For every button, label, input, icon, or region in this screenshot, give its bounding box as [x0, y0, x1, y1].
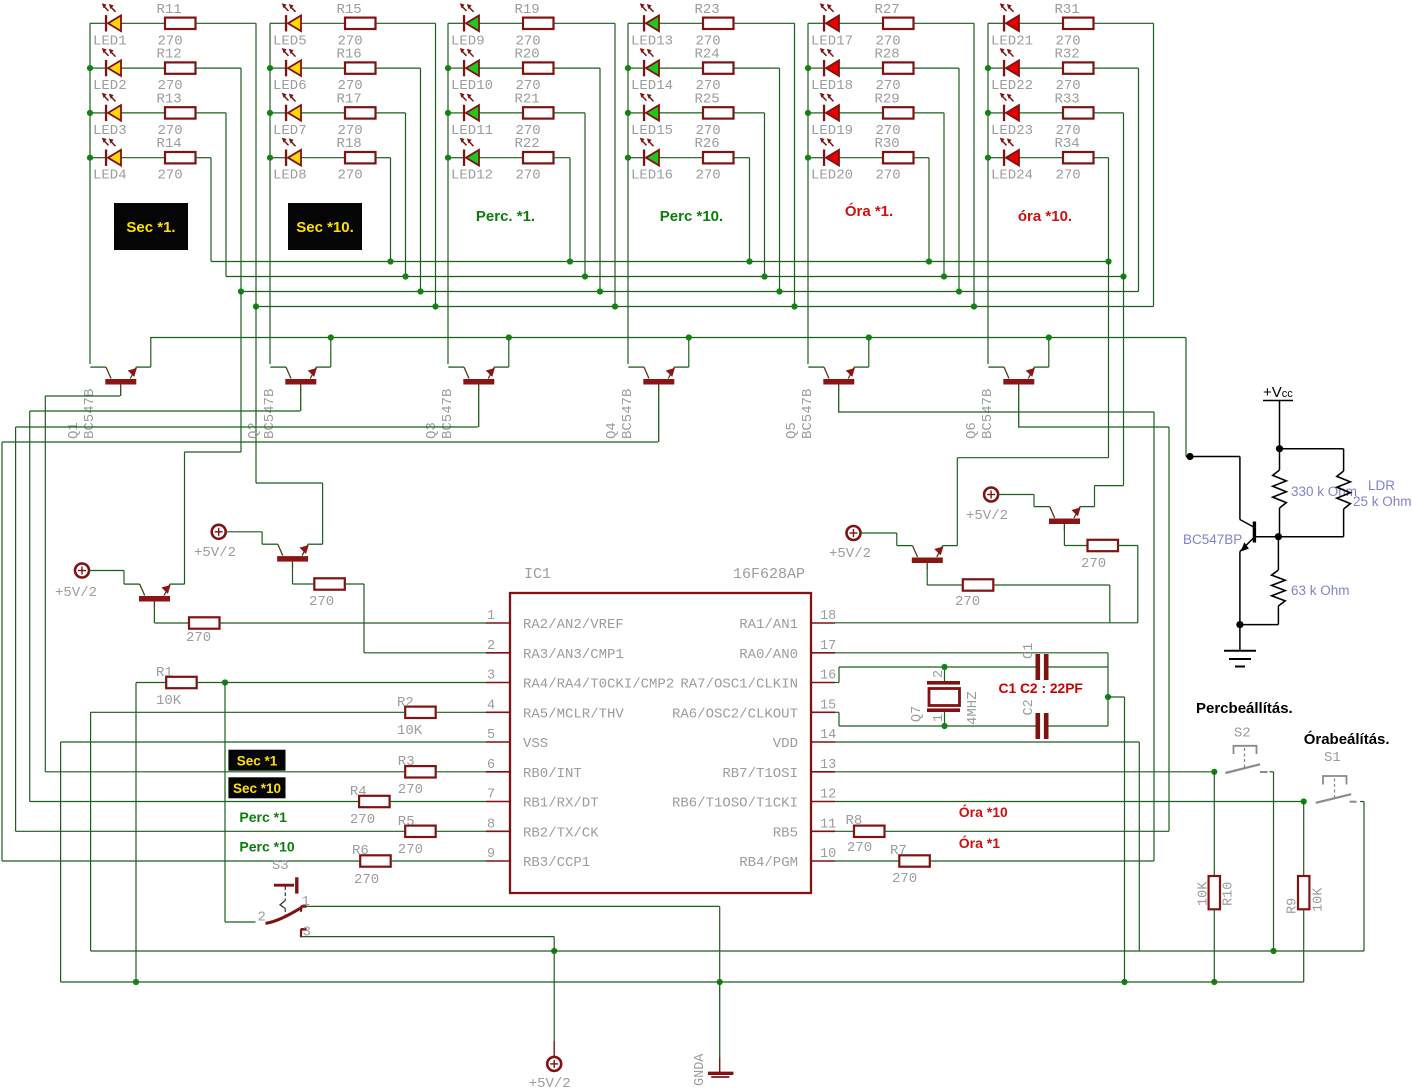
svg-text:1: 1 [302, 894, 310, 910]
switch S1 [1316, 776, 1357, 803]
LED LED11 [460, 93, 479, 121]
wire S2 contact to +5 rail [1270, 771, 1274, 773]
wire pin6 line [45, 771, 405, 773]
wire S3 pole [225, 921, 256, 923]
junction [87, 65, 93, 71]
junction [417, 288, 423, 294]
junction [746, 258, 752, 264]
svg-text:12: 12 [820, 788, 836, 803]
svg-text:LED10: LED10 [451, 78, 493, 94]
transistor Q1 BC547B [90, 367, 151, 390]
wire driver B collector [292, 566, 294, 584]
wire Q4 base drop [658, 389, 660, 442]
svg-text:óra *10.: óra *10. [1018, 208, 1072, 225]
wire driver A supply [89, 570, 124, 572]
ground [1239, 625, 1241, 651]
wire driver A output to pin1 [220, 622, 487, 624]
wire [554, 112, 586, 114]
svg-text:BC547B: BC547B [262, 389, 278, 439]
junction [612, 303, 618, 309]
svg-text:LED13: LED13 [631, 33, 673, 49]
wire [914, 67, 960, 69]
transistor driver E [897, 546, 958, 569]
resistor 63 k Ohm [1277, 537, 1279, 570]
resistor R1 10K [166, 677, 197, 688]
wire [628, 22, 643, 24]
svg-text:270: 270 [186, 630, 211, 646]
svg-text:C2: C2 [1022, 699, 1037, 715]
resistor R6 270 [360, 855, 391, 866]
pin 14 stub [811, 741, 835, 743]
svg-text:R1: R1 [156, 665, 173, 681]
junction [1120, 273, 1126, 279]
wire LED group 1 common [89, 23, 91, 364]
svg-text:LED9: LED9 [451, 33, 485, 49]
wire R3 to pin6 [436, 771, 486, 773]
resistor driver A 270 [189, 617, 220, 628]
LED LED19 [820, 93, 839, 121]
wire C1 right [1049, 666, 1109, 668]
LED LED22 [1000, 48, 1019, 76]
junction [1211, 979, 1217, 985]
svg-text:+5V/2: +5V/2 [55, 585, 97, 601]
resistor R11 270 [165, 18, 196, 29]
junction [253, 303, 259, 309]
svg-text:RB6/T1OSO/T1CKI: RB6/T1OSO/T1CKI [672, 796, 798, 812]
svg-text:R3: R3 [398, 754, 415, 770]
wire driver F supply [998, 494, 1034, 496]
svg-text:Percbeállítás.: Percbeállítás. [1196, 700, 1293, 717]
svg-text:270: 270 [350, 812, 375, 828]
wire [270, 157, 285, 159]
junction [402, 273, 408, 279]
wire Q2 base drop [300, 389, 302, 411]
svg-text:Q3: Q3 [424, 422, 440, 439]
+5V/2 supply [847, 526, 861, 540]
wire [448, 157, 463, 159]
wire Q6 base drop [1018, 389, 1020, 427]
wire [554, 157, 571, 159]
resistor R12 270 [165, 62, 196, 73]
junction [686, 334, 692, 340]
junction [1270, 948, 1276, 954]
wire S3 contact3 to +5V/2 [301, 936, 554, 938]
crystal Q7 4MHZ [927, 681, 960, 712]
wire [554, 67, 601, 69]
resistor R23 270 [703, 18, 734, 29]
svg-text:10K: 10K [1312, 887, 1327, 912]
wire [914, 157, 930, 159]
svg-text:+5V/2: +5V/2 [194, 545, 236, 561]
svg-text:LED11: LED11 [451, 123, 493, 139]
svg-text:Q6: Q6 [964, 422, 980, 439]
svg-text:RB3/CCP1: RB3/CCP1 [523, 855, 590, 871]
wire R6 to pin9 [391, 860, 486, 862]
svg-text:10K: 10K [397, 723, 423, 739]
wire [270, 22, 285, 24]
wire S1 contact to +5 rail [1360, 801, 1364, 803]
svg-text:25 k Ohm: 25 k Ohm [1353, 494, 1412, 509]
resistor R2 10K [405, 707, 436, 718]
svg-text:R23: R23 [695, 2, 720, 18]
junction [1105, 258, 1111, 264]
wire emitter rail to BC547BP collector [1185, 338, 1187, 457]
svg-text:3: 3 [303, 925, 311, 941]
LED LED13 [640, 3, 659, 31]
wire [196, 157, 212, 159]
pin 9 stub [486, 860, 510, 862]
svg-text:Perc. *1.: Perc. *1. [476, 208, 535, 225]
transistor driver B [262, 544, 323, 567]
svg-text:10: 10 [820, 847, 836, 862]
junction [267, 155, 273, 161]
wire [1094, 112, 1124, 114]
LDR 25 k Ohm [1337, 471, 1351, 509]
transistor Q5 BC547B [808, 367, 869, 390]
svg-text:270: 270 [354, 872, 379, 888]
svg-text:270: 270 [398, 782, 423, 798]
svg-text:13: 13 [820, 758, 836, 773]
wire R7 to Q5 base net [930, 860, 1154, 862]
wire bus-B to driver-F emitter [1123, 277, 1125, 486]
svg-text:RA5/MCLR/THV: RA5/MCLR/THV [523, 706, 624, 722]
wire [554, 22, 616, 24]
wire pin14 VDD to +5 rail [835, 741, 1139, 743]
pin 13 stub [811, 771, 835, 773]
pin 8 stub [486, 830, 510, 832]
junction [625, 155, 631, 161]
wire bus-A to driver-E emitter [1108, 262, 1110, 458]
resistor R13 270 [165, 107, 196, 118]
pin 7 stub [486, 801, 510, 803]
svg-text:4: 4 [487, 698, 495, 713]
svg-text:270: 270 [1081, 556, 1106, 572]
svg-text:+5V/2: +5V/2 [966, 508, 1008, 524]
resistor R7 270 [899, 855, 930, 866]
wire [90, 112, 105, 114]
pin 10 stub [811, 860, 835, 862]
+5V/2 supply [984, 488, 998, 502]
switch S3 [266, 877, 307, 937]
svg-text:R10: R10 [1222, 882, 1237, 906]
svg-text:270: 270 [1056, 168, 1081, 184]
wire Q6 base to RB5 net [1018, 426, 1169, 428]
svg-text:R31: R31 [1055, 2, 1080, 18]
junction [791, 303, 797, 309]
svg-text:7: 7 [487, 788, 495, 803]
resistor R24 270 [703, 62, 734, 73]
junction [445, 110, 451, 116]
wire pin17 to cap common [835, 652, 1108, 654]
pin 17 stub [811, 652, 835, 654]
label box Sec *10 [228, 777, 285, 798]
svg-text:9: 9 [487, 847, 495, 862]
svg-text:RA0/AN0: RA0/AN0 [739, 647, 798, 663]
wire [196, 22, 257, 24]
LED LED21 [1000, 3, 1019, 31]
resistor R4 270 [359, 796, 390, 807]
resistor 330 k Ohm [1279, 449, 1281, 470]
junction [506, 334, 512, 340]
wire driver E collector [926, 567, 928, 585]
ground GNDA [708, 982, 734, 1077]
svg-text:5: 5 [487, 728, 495, 743]
svg-text:14: 14 [820, 728, 836, 743]
LED LED15 [640, 93, 659, 121]
svg-text:10K: 10K [156, 693, 182, 709]
+Vcc supply [1263, 400, 1293, 402]
wire pin13 to S2 [835, 771, 1214, 773]
bus row B (y276) [226, 276, 1124, 278]
wire LED group 4 common [627, 23, 629, 364]
LED LED6 [282, 48, 301, 76]
junction [1211, 769, 1217, 775]
junction [805, 65, 811, 71]
svg-text:16: 16 [820, 669, 836, 684]
wire divider node [1255, 536, 1344, 538]
svg-text:15: 15 [820, 698, 836, 713]
svg-text:RB5: RB5 [773, 825, 798, 841]
svg-text:LED6: LED6 [273, 78, 307, 94]
wire Q6 emitter [1048, 338, 1050, 368]
svg-text:GNDA: GNDA [693, 1053, 708, 1086]
svg-text:R20: R20 [515, 47, 540, 63]
svg-text:270: 270 [892, 871, 917, 887]
svg-text:Sec *1.: Sec *1. [126, 219, 175, 236]
svg-text:R27: R27 [875, 2, 900, 18]
svg-text:+5V/2: +5V/2 [829, 546, 871, 562]
pin 4 stub [486, 711, 510, 713]
svg-text:LED2: LED2 [93, 78, 127, 94]
LED LED1 [102, 3, 121, 31]
svg-text:Q1: Q1 [66, 422, 82, 439]
svg-text:R16: R16 [337, 47, 362, 63]
bus row A (y261) [211, 261, 1109, 263]
resistor R28 270 [883, 62, 914, 73]
svg-text:1: 1 [487, 609, 495, 624]
LED LED17 [820, 3, 839, 31]
wire Q1 emitter [150, 338, 152, 368]
wire pin15 jog [835, 711, 839, 713]
junction [597, 288, 603, 294]
resistor driver E 270 [963, 579, 994, 590]
svg-text:BC547B: BC547B [620, 389, 636, 439]
junction [328, 334, 334, 340]
wire [90, 67, 105, 69]
svg-text:RB2/TX/CK: RB2/TX/CK [523, 825, 599, 841]
wire driver F collector [1063, 528, 1065, 546]
ground rail (y982) [61, 981, 1304, 983]
wire [90, 22, 105, 24]
wire [376, 22, 436, 24]
svg-text:R21: R21 [515, 91, 540, 107]
wire pin16 jog [835, 682, 839, 684]
svg-text:LED18: LED18 [811, 78, 853, 94]
wire [196, 67, 242, 69]
wire bus-C to driver-A emitter [240, 292, 242, 453]
svg-text:Óra *1: Óra *1 [959, 834, 1000, 851]
wire Q4 base to RB3 net [2, 441, 658, 443]
junction [87, 110, 93, 116]
svg-text:R12: R12 [157, 47, 182, 63]
wire [628, 112, 643, 114]
wire cap common to ground rail [1108, 696, 1125, 698]
wire Q1 base drop [120, 389, 122, 396]
label box Sec *1. [114, 203, 188, 250]
wire driver E supply [861, 532, 897, 534]
wire pin18 line [835, 622, 1138, 624]
pin 6 stub [486, 771, 510, 773]
wire [808, 67, 823, 69]
bus row D (y306) [256, 306, 1154, 308]
wire [628, 67, 643, 69]
LED LED24 [1000, 138, 1019, 166]
svg-text:LED12: LED12 [451, 168, 493, 184]
wire [914, 112, 945, 114]
svg-text:270: 270 [847, 840, 872, 856]
LED LED20 [820, 138, 839, 166]
wire Q3 base to RB2 net [16, 426, 478, 428]
svg-text:R13: R13 [157, 91, 182, 107]
junction [941, 273, 947, 279]
LED LED10 [460, 48, 479, 76]
svg-text:Perc *1: Perc *1 [239, 809, 287, 825]
svg-text:270: 270 [309, 594, 334, 610]
wire Q5 base drop [838, 389, 840, 412]
svg-text:LED1: LED1 [93, 33, 127, 49]
svg-text:R19: R19 [515, 2, 540, 18]
svg-text:8: 8 [487, 817, 495, 832]
junction [941, 723, 947, 729]
resistor R14 270 [165, 152, 196, 163]
junction [222, 679, 228, 685]
junction [387, 258, 393, 264]
svg-text:LED3: LED3 [93, 123, 127, 139]
junction [1301, 798, 1307, 804]
wire +Vcc down [1279, 401, 1281, 449]
wire emitter rail [150, 337, 1186, 339]
wire [448, 67, 463, 69]
svg-text:R33: R33 [1055, 91, 1080, 107]
svg-text:2: 2 [932, 670, 947, 678]
svg-text:BC547B: BC547B [980, 389, 996, 439]
svg-text:LED24: LED24 [991, 168, 1033, 184]
wire [448, 112, 463, 114]
svg-text:LDR: LDR [1368, 478, 1395, 493]
wire LED group 5 common [807, 23, 809, 364]
svg-text:RA3/AN3/CMP1: RA3/AN3/CMP1 [523, 647, 624, 663]
svg-text:LED20: LED20 [811, 168, 853, 184]
wire LED group 6 common [987, 23, 989, 364]
capacitor C1 22PF [1036, 654, 1041, 680]
svg-text:270: 270 [876, 168, 901, 184]
svg-text:RB0/INT: RB0/INT [523, 766, 582, 782]
+5V/2 supply [212, 525, 226, 539]
LED LED18 [820, 48, 839, 76]
svg-text:BC547BP: BC547BP [1183, 532, 1242, 547]
wire [734, 22, 795, 24]
svg-text:LED17: LED17 [811, 33, 853, 49]
wire [808, 112, 823, 114]
resistor R5 270 [405, 826, 436, 837]
svg-text:R4: R4 [350, 784, 367, 800]
wire [988, 112, 1003, 114]
wire to LDR [1280, 448, 1344, 450]
pin 1 stub [486, 622, 510, 624]
wire pin11 line [835, 830, 854, 832]
resistor R20 270 [523, 62, 554, 73]
wire [376, 112, 406, 114]
resistor R27 270 [883, 18, 914, 29]
wire [1094, 157, 1109, 159]
svg-text:18: 18 [820, 609, 836, 624]
svg-text:R11: R11 [157, 2, 182, 18]
wire [988, 157, 1003, 159]
svg-text:LED23: LED23 [991, 123, 1033, 139]
wire crystal pin1 [944, 712, 946, 726]
wire LED group 3 common [447, 23, 449, 364]
+5V/2 supply bottom [547, 1057, 561, 1071]
svg-text:10K: 10K [1197, 881, 1212, 906]
svg-text:270: 270 [398, 842, 423, 858]
resistor R30 270 [883, 152, 914, 163]
svg-text:R34: R34 [1055, 136, 1080, 152]
svg-text:RA6/OSC2/CLKOUT: RA6/OSC2/CLKOUT [672, 706, 798, 722]
svg-text:2: 2 [258, 910, 266, 926]
wire bus-D to driver-B emitter [255, 307, 257, 484]
junction [866, 334, 872, 340]
junction [956, 288, 962, 294]
resistor R16 270 [345, 62, 376, 73]
resistor R3 270 [405, 766, 436, 777]
junction [985, 110, 991, 116]
wire pin8 line [16, 830, 406, 832]
svg-text:Órabeálítás.: Órabeálítás. [1304, 730, 1390, 748]
wire [628, 157, 643, 159]
wire Q4 emitter [688, 338, 690, 368]
label box Sec *1 [228, 750, 285, 771]
junction [625, 65, 631, 71]
wire Q1 base to RB0 net [45, 395, 120, 397]
junction [267, 110, 273, 116]
wire driver B output to pin2 [345, 583, 364, 585]
wire [376, 157, 391, 159]
transistor driver A [124, 584, 185, 607]
svg-text:270: 270 [696, 168, 721, 184]
svg-text:Sec *10.: Sec *10. [296, 219, 354, 236]
junction [1121, 979, 1127, 985]
wire [196, 112, 227, 114]
svg-text:R2: R2 [397, 695, 414, 711]
wire C2 right [1049, 725, 1109, 727]
wire [1094, 67, 1139, 69]
LED LED14 [640, 48, 659, 76]
svg-text:3: 3 [487, 669, 495, 684]
svg-text:C1: C1 [1022, 643, 1037, 659]
resistor R21 270 [523, 107, 554, 118]
junction [761, 273, 767, 279]
wire [808, 157, 823, 159]
svg-text:R30: R30 [875, 136, 900, 152]
resistor R25 270 [703, 107, 734, 118]
junction [985, 65, 991, 71]
pin 18 stub [811, 622, 835, 624]
LED LED5 [282, 3, 301, 31]
svg-text:270: 270 [158, 168, 183, 184]
svg-text:LED5: LED5 [273, 33, 307, 49]
svg-text:11: 11 [820, 817, 836, 832]
svg-text:R9: R9 [1286, 898, 1301, 914]
